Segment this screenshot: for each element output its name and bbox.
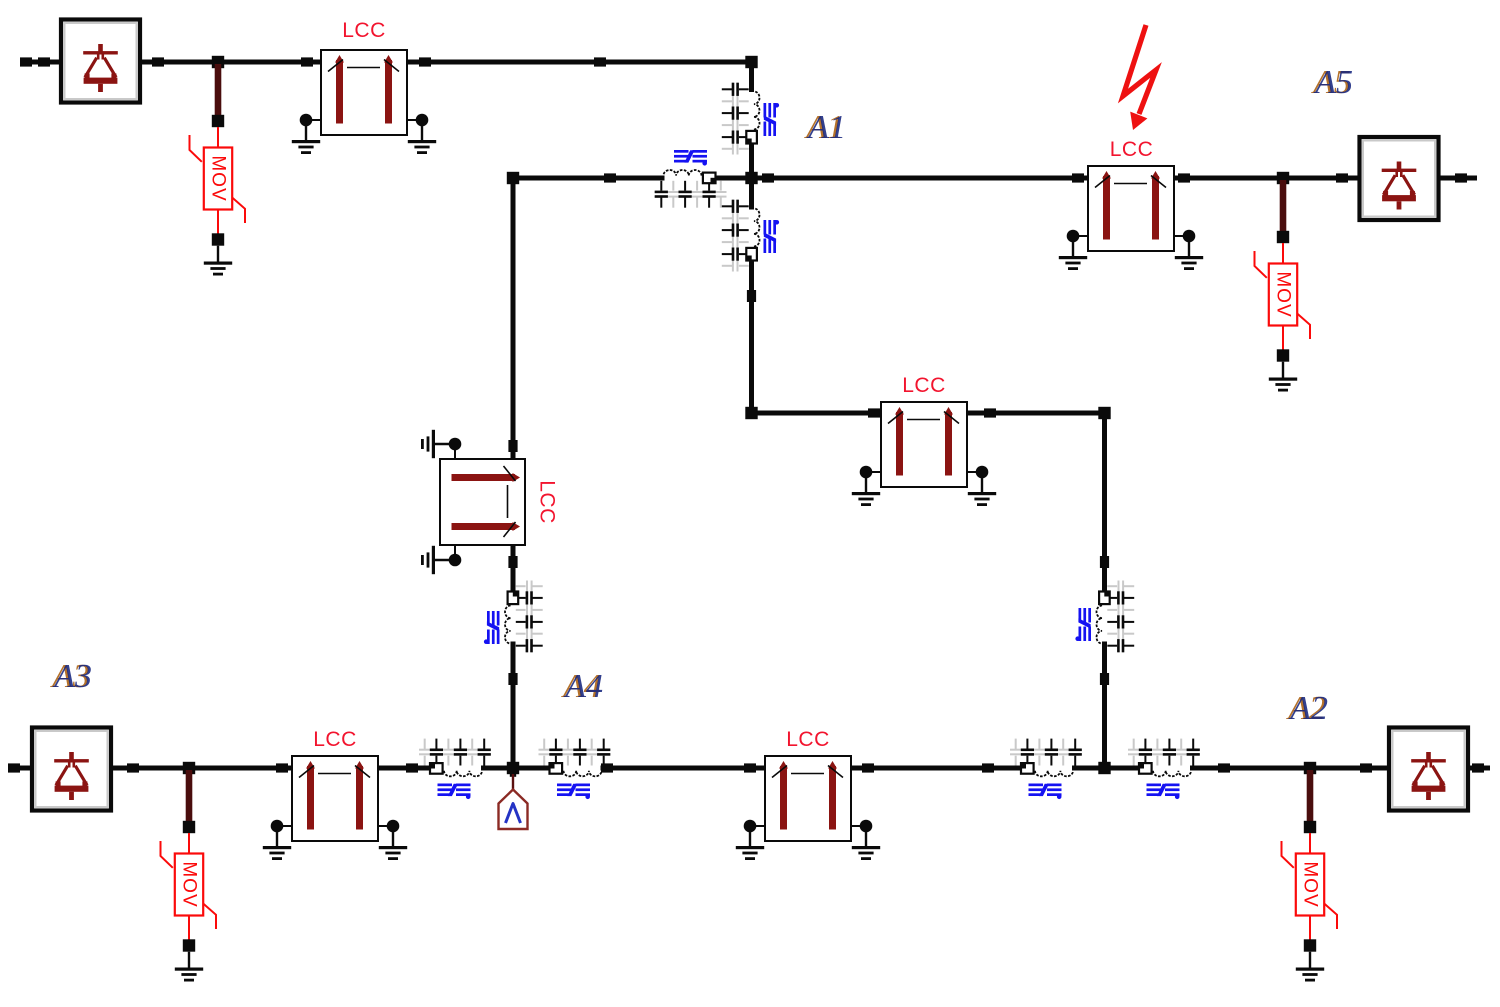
- wire link bus corner A1 to LCC4: [749, 411, 900, 416]
- MOV arrester MOV1 (top-left): [190, 56, 246, 276]
- wire left column T8 to bottom bus: [511, 642, 516, 771]
- wire mid bus from LCC5 to A5 source: [1159, 176, 1477, 181]
- junction port right of A3 source: [127, 763, 139, 772]
- MOV arrester MOV4 (A2): [1282, 762, 1338, 982]
- transmission line termination T7 (A1 column lower): [722, 200, 779, 272]
- node corner mid bus to left column: [507, 172, 519, 184]
- node corner top bus to A1 column: [745, 56, 757, 68]
- wire left column LCC3 to line T8: [511, 527, 516, 592]
- junction port right of source box1: [152, 57, 164, 66]
- wire top bus left of LCC1: [20, 60, 340, 65]
- thyristor source box S2 (bottom-right, A2): [1389, 728, 1468, 811]
- junction port above LCC3: [508, 440, 517, 452]
- thyristor source box S5 (top-right, A5): [1360, 137, 1439, 220]
- junction port below line T8: [508, 673, 517, 685]
- transmission line termination T9 (right column): [1075, 581, 1134, 653]
- svg-text:LCC: LCC: [342, 19, 386, 42]
- svg-text:A4: A4: [563, 668, 603, 705]
- node corner link bus to right column: [1098, 407, 1110, 419]
- wire link bus LCC4 to right corner: [952, 411, 1107, 416]
- transmission line termination T6 (A1 column upper): [722, 83, 779, 155]
- junction port left of LCC2: [276, 763, 288, 772]
- wire bottom bus T3 through node to line T4: [1072, 766, 1140, 771]
- wire mid bus from T5 through A1 cross to LCC5: [715, 176, 1108, 181]
- wire left column corner to LCC3: [511, 176, 516, 479]
- LCC converter U6 (bottom-middle): [736, 728, 880, 860]
- LCC converter U3 (middle, rotated): [421, 430, 559, 574]
- junction port right of A5 source: [1455, 173, 1467, 182]
- junction port left of LCC5: [1072, 173, 1084, 182]
- node A4 label: [561, 668, 603, 705]
- junction bottom-left stub end: [8, 763, 20, 772]
- junction port on top bus: [594, 57, 606, 66]
- svg-text:LCC: LCC: [313, 728, 357, 751]
- junction port right of LCC6: [862, 763, 874, 772]
- junction top-left stub end: [20, 57, 32, 66]
- junction port right of A1 cross: [762, 173, 774, 182]
- LCC converter U5 (top-right): [1059, 138, 1203, 270]
- MOV arrester MOV2 (A5): [1255, 172, 1311, 392]
- junction port below line T9: [1100, 673, 1109, 685]
- junction port right of A2 source: [1472, 763, 1484, 772]
- svg-text:A5: A5: [1313, 64, 1353, 101]
- node cross junction A1: [745, 172, 757, 184]
- LCC converter U2 (bottom-left): [263, 728, 407, 860]
- junction port right of LCC4: [984, 408, 996, 417]
- junction port left of LCC1: [301, 57, 313, 66]
- junction port on A1 column: [747, 290, 756, 302]
- svg-text:LCC: LCC: [536, 480, 559, 524]
- junction port right of LCC1: [419, 57, 431, 66]
- node tee junction right column at bottom bus: [1098, 762, 1110, 774]
- MOV arrester MOV3 (A3): [161, 762, 217, 982]
- wire bottom bus T1 to node A4 and T2: [481, 766, 550, 771]
- wire bottom bus T2 to LCC6: [601, 766, 785, 771]
- wire bottom bus LCC6 to line T3: [836, 766, 1022, 771]
- svg-text:A3: A3: [52, 658, 92, 695]
- transmission line termination T8 (left column below LCC3): [484, 581, 543, 653]
- junction port below LCC3: [508, 556, 517, 568]
- wire top bus right of LCC1 to corner A1: [391, 60, 754, 65]
- svg-text:A1: A1: [806, 109, 846, 146]
- junction port right of line T4: [1218, 763, 1230, 772]
- thyristor source box S3 (bottom-left, A3): [32, 728, 111, 811]
- svg-text:LCC: LCC: [786, 728, 830, 751]
- transmission line termination T2 (bottom bus, east of A4): [539, 739, 611, 800]
- junction port right of line T2: [601, 763, 613, 772]
- node A5 label: [1311, 64, 1353, 101]
- wire right column T9 to bottom bus: [1102, 642, 1107, 771]
- junction port right of LCC2: [406, 763, 418, 772]
- wire A1 column through cross to line T7: [749, 143, 754, 210]
- wire A1 column lower to corner: [749, 261, 754, 416]
- node A3 label: [50, 658, 92, 695]
- junction port left of line T3: [982, 763, 994, 772]
- node A2 label: [1286, 690, 1328, 727]
- transmission line termination T5 (mid bus, west of A1): [655, 150, 727, 208]
- junction port left of LCC6: [744, 763, 756, 772]
- svg-text:LCC: LCC: [902, 374, 946, 397]
- transmission line termination T4 (bottom bus, east of A2 column): [1128, 739, 1200, 800]
- LCC converter U1 (top-left): [292, 19, 436, 154]
- wire A1 column upper (corner to line T6): [749, 60, 754, 93]
- voltmeter probe V at node A4: [499, 774, 528, 829]
- lightning fault symbol at LCC5: [1123, 25, 1156, 130]
- junction port on mid bus: [604, 173, 616, 182]
- transmission line termination T3 (bottom bus, west of A2 column): [1010, 739, 1082, 800]
- junction port above line T9: [1100, 556, 1109, 568]
- wire bottom bus A3 source to LCC2: [8, 766, 311, 771]
- svg-text:LCC: LCC: [1110, 138, 1154, 161]
- junction port left of A5 source: [1336, 173, 1348, 182]
- wire right column corner to line T9: [1102, 411, 1107, 592]
- thyristor source box S1 (top-left): [61, 20, 140, 103]
- junction port right of LCC5: [1178, 173, 1190, 182]
- svg-text:A2: A2: [1288, 690, 1328, 727]
- transmission line termination T1 (bottom bus, west of A4): [419, 739, 491, 800]
- wire bottom bus LCC2 to line T1: [363, 766, 431, 771]
- stub below junction A4: [510, 768, 516, 777]
- wire mid bus from corner x513 to line T5: [511, 176, 665, 181]
- node cross junction A4: [507, 762, 519, 774]
- junction port left of A2 source: [1360, 763, 1372, 772]
- node corner A1 column to link bus: [745, 407, 757, 419]
- wire bottom bus T4 to A2 source: [1190, 766, 1490, 771]
- LCC converter U4 (middle-right): [852, 374, 996, 506]
- node A1 label: [804, 109, 846, 146]
- junction port left of source box1: [38, 57, 50, 66]
- junction port left of LCC4: [868, 408, 880, 417]
